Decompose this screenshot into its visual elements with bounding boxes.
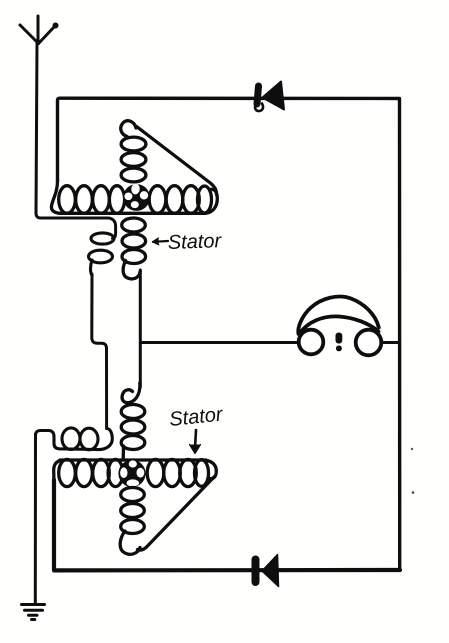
right end curl — [204, 460, 216, 478]
horizontal coil loops — [59, 186, 76, 214]
phones wire left — [140, 341, 298, 344]
headphones P — [298, 297, 381, 356]
diode D1 crystal detector — [255, 82, 284, 112]
wire left middle with jog — [92, 274, 107, 427]
horizontal coil loops — [59, 459, 76, 486]
phones wire right — [381, 341, 398, 344]
rotor R2 — [118, 460, 145, 487]
vertical coil loops in triangle — [121, 137, 146, 151]
bottom variometer T2 — [54, 383, 217, 554]
stator coil below rotor — [122, 218, 146, 232]
wire outer loop: top rail, right rail — [58, 98, 400, 570]
top curl — [122, 383, 140, 403]
wire center vertical to lower variometer — [139, 270, 142, 387]
hypotenuse — [138, 477, 215, 551]
wire antenna lead — [36, 43, 116, 239]
label Stator bottom with arrow — [169, 406, 224, 453]
label Stator top with arrow — [153, 233, 223, 249]
coupling coil lower half L2 — [36, 428, 113, 450]
wire ground lead — [34, 434, 37, 603]
left end curl — [51, 180, 205, 213]
coupling coil upper half L2 — [89, 233, 115, 276]
hypotenuse — [137, 127, 217, 195]
stator coil above rotor — [121, 405, 145, 419]
ground — [22, 605, 45, 620]
rotor R1 — [123, 183, 150, 211]
stator coil below rotor — [121, 488, 145, 502]
wire bottom rail — [54, 480, 400, 570]
speck — [411, 448, 413, 450]
triangle apex curl — [121, 121, 136, 137]
diode D2 crystal detector — [256, 555, 279, 587]
antenna — [20, 16, 59, 44]
speck 2 — [412, 491, 415, 494]
left end curl of horizontal coil — [54, 460, 62, 482]
bottom curl — [120, 531, 140, 554]
coil top line — [60, 458, 206, 461]
top variometer T1 — [51, 121, 217, 279]
right end curl up — [205, 189, 217, 213]
